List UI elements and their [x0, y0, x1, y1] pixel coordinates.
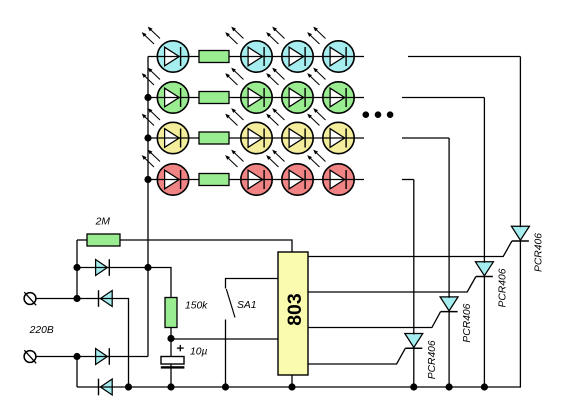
light arrows LED row1 col3	[266, 27, 284, 44]
svg-text:PCR406: PCR406	[462, 303, 473, 342]
wire row 2 right segment	[402, 97, 484, 99]
svg-text:803: 803	[284, 293, 306, 326]
label SA1	[237, 300, 256, 311]
wire row 2 left segment	[148, 97, 364, 99]
junction rail x=171	[167, 383, 174, 390]
junction rail x=413.8	[410, 383, 417, 390]
junction LED bus y=138.0	[144, 134, 151, 141]
LED row4 col4 body	[323, 164, 354, 195]
ellipsis dots	[363, 111, 394, 118]
junction rail x=484.4	[481, 383, 488, 390]
light arrows LED row2 col1	[142, 68, 160, 85]
wire 150k bottom to junction	[170, 328, 172, 339]
wire junction to IC left pin	[171, 338, 278, 340]
junction left bus y=267.5	[73, 264, 80, 271]
label 150k	[185, 301, 208, 312]
light arrows LED row3 col3	[266, 108, 284, 125]
terminal input 2	[24, 350, 36, 363]
IC 803	[278, 252, 308, 375]
LED row3 col4 body	[323, 122, 354, 153]
junction left bus y=356.5	[73, 353, 80, 360]
svg-text:PCR406: PCR406	[497, 268, 508, 307]
LED row1 col3 body	[282, 41, 313, 72]
resistor row 4	[199, 174, 229, 186]
wire row 3 left segment	[148, 137, 364, 139]
wire capacitor vertical	[170, 339, 172, 388]
wire IC bottom to rail	[291, 375, 293, 387]
wire gate thyristor 2	[308, 312, 441, 328]
light arrows LED row2 col4	[307, 68, 325, 85]
light arrows LED row3 col2	[225, 108, 243, 125]
wire row 3 right segment	[402, 137, 449, 139]
wire thyristor 1 to rail	[413, 348, 415, 387]
junction left bus y=298.5	[73, 295, 80, 302]
wire drop row 3 to thyristor 2	[448, 138, 450, 298]
diode VD1 body	[96, 259, 110, 276]
light arrows LED row1 col4	[307, 27, 325, 44]
wire thyristor 3 to rail	[483, 277, 485, 388]
LED row4 col2 body	[241, 164, 272, 195]
wire row 1 right segment	[408, 56, 520, 58]
wire terminal 1 / VD2 row	[36, 299, 129, 388]
label PCR406 #4	[533, 233, 544, 272]
wire 2M to IC top pin	[120, 240, 292, 252]
label PCR406 #2	[462, 303, 473, 342]
resistor row 1	[199, 51, 229, 63]
light arrows LED row2 col3	[266, 68, 284, 85]
thyristor PCR406 #4 body	[511, 226, 529, 241]
wire drop row 2 to thyristor 3	[483, 98, 485, 263]
thyristor PCR406 #1 body	[405, 334, 423, 349]
resistor 150k	[165, 298, 177, 328]
label PCR406 #3	[497, 268, 508, 307]
wire gate thyristor 3	[308, 277, 476, 293]
light arrows LED row2 col2	[225, 68, 243, 85]
LED row1 col2 body	[241, 41, 272, 72]
light arrows LED row4 col1	[142, 150, 160, 167]
diode VD4 body	[99, 379, 113, 396]
LED row2 col2 body	[241, 82, 272, 113]
junction rail x=449.1	[446, 383, 453, 390]
light arrows LED row1 col2	[225, 27, 243, 44]
light arrows LED row4 col3	[266, 150, 284, 167]
label 803	[284, 293, 306, 326]
wire row 4 left segment	[148, 179, 364, 181]
LED row3 col3 body	[282, 122, 313, 153]
diode VD2 body	[99, 290, 113, 307]
LED row2 col4 body	[323, 82, 354, 113]
resistor row 2	[199, 92, 229, 104]
junction rail x=225.5	[222, 383, 229, 390]
wire LED left bus vertical	[147, 57, 149, 357]
svg-text:PCR406: PCR406	[427, 340, 438, 379]
resistor row 3	[199, 132, 229, 144]
svg-text:220B: 220B	[29, 325, 54, 336]
wire drop row 4 to thyristor 1	[413, 180, 415, 335]
junction LED bus y=97.5	[144, 94, 151, 101]
LED row1 col4 body	[323, 41, 354, 72]
LED row4 col1 body	[157, 164, 188, 195]
junction LED bus y=267.5	[144, 264, 151, 271]
LED row2 col1 body	[157, 82, 188, 113]
wire row 1 left segment	[148, 56, 364, 58]
wire 2M left to bus	[77, 239, 87, 241]
label 2M	[95, 217, 111, 228]
svg-text:PCR406: PCR406	[533, 233, 544, 272]
wire diode VD1 row to 150k	[77, 268, 171, 298]
wire gate thyristor 4	[308, 241, 512, 257]
wire row 4 right segment	[402, 179, 414, 181]
junction rail x=128.5	[125, 383, 132, 390]
svg-text:2M: 2M	[95, 217, 111, 228]
label PCR406 #1	[427, 340, 438, 379]
light arrows LED row1 col1	[142, 27, 160, 44]
LED row1 col1 body	[157, 41, 188, 72]
wire left bus vertical upper	[76, 240, 78, 299]
junction LED bus y=179.5	[144, 176, 151, 183]
junction rail x=292	[288, 383, 295, 390]
wire drop row 1 to thyristor 4	[519, 57, 521, 228]
LED row3 col1 body	[157, 122, 188, 153]
thyristor PCR406 #2 body	[440, 297, 458, 312]
wire bottom rail	[77, 386, 521, 388]
LED row3 col2 body	[241, 122, 272, 153]
terminal input 1	[24, 292, 36, 305]
resistor 2M	[87, 234, 120, 246]
svg-text:150k: 150k	[185, 301, 208, 312]
label 10µ	[190, 347, 207, 358]
switch SA1	[226, 279, 279, 388]
light arrows LED row3 col1	[142, 108, 160, 125]
wire left bus vertical lower	[76, 357, 78, 388]
label +	[177, 345, 184, 351]
thyristor PCR406 #3 body	[475, 262, 493, 277]
LED row2 col3 body	[282, 82, 313, 113]
wire thyristor 4 to rail	[519, 241, 521, 387]
LED row4 col3 body	[282, 164, 313, 195]
diode VD3 body	[96, 348, 110, 365]
wire gate thyristor 1	[308, 348, 405, 364]
label 220B	[29, 325, 54, 336]
wire thyristor 2 to rail	[448, 312, 450, 387]
wire terminal 2 / VD3 row	[36, 356, 148, 358]
svg-text:SA1: SA1	[237, 300, 256, 311]
svg-text:10µ: 10µ	[190, 347, 207, 358]
junction 150k/capacitor	[167, 335, 174, 342]
light arrows LED row4 col2	[225, 150, 243, 167]
light arrows LED row4 col4	[307, 150, 325, 167]
capacitor C1 10µ plates	[161, 357, 185, 369]
light arrows LED row3 col4	[307, 108, 325, 125]
